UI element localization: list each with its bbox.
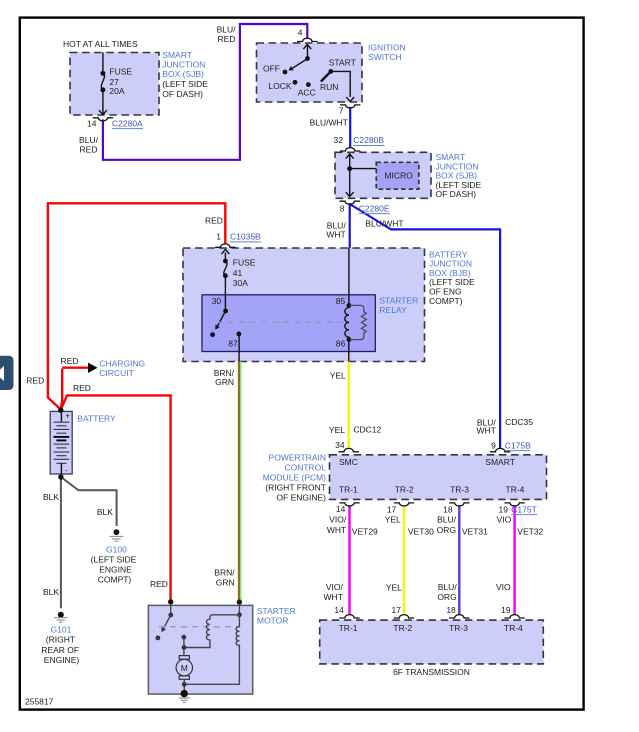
svg-text:RED: RED bbox=[80, 144, 98, 154]
svg-text:CIRCUIT: CIRCUIT bbox=[99, 368, 133, 378]
svg-text:RED: RED bbox=[218, 34, 236, 44]
svg-text:(RIGHT FRONT: (RIGHT FRONT bbox=[265, 483, 326, 493]
svg-text:COMPT): COMPT) bbox=[98, 575, 132, 585]
svg-text:CONTROL: CONTROL bbox=[284, 462, 326, 472]
svg-text:18: 18 bbox=[446, 605, 456, 615]
svg-text:MICRO: MICRO bbox=[384, 170, 413, 180]
svg-text:9: 9 bbox=[491, 441, 496, 451]
svg-text:14: 14 bbox=[334, 605, 344, 615]
svg-text:TR-1: TR-1 bbox=[339, 623, 358, 633]
svg-text:BLK: BLK bbox=[97, 507, 113, 517]
svg-text:FUSE: FUSE bbox=[233, 258, 256, 268]
svg-text:GRN: GRN bbox=[215, 377, 234, 387]
svg-text:255817: 255817 bbox=[25, 696, 54, 706]
svg-text:6F TRANSMISSION: 6F TRANSMISSION bbox=[393, 667, 470, 677]
svg-text:18: 18 bbox=[443, 504, 453, 514]
svg-text:WHT: WHT bbox=[476, 426, 495, 436]
svg-text:START: START bbox=[329, 57, 356, 67]
svg-text:M: M bbox=[181, 663, 188, 673]
svg-text:20A: 20A bbox=[109, 86, 124, 96]
svg-text:TR-4: TR-4 bbox=[504, 623, 523, 633]
svg-text:YEL: YEL bbox=[330, 371, 346, 381]
svg-text:VET29: VET29 bbox=[352, 526, 378, 536]
svg-text:BLU/WHT: BLU/WHT bbox=[365, 219, 403, 229]
svg-text:TR-2: TR-2 bbox=[395, 484, 414, 494]
svg-text:BLU/: BLU/ bbox=[217, 24, 237, 34]
svg-text:REAR OF: REAR OF bbox=[41, 645, 79, 655]
svg-text:8: 8 bbox=[340, 203, 345, 213]
svg-text:RUN: RUN bbox=[320, 82, 338, 92]
svg-text:RED: RED bbox=[150, 579, 168, 589]
svg-text:SMART: SMART bbox=[485, 457, 515, 467]
svg-text:POWERTRAIN: POWERTRAIN bbox=[269, 452, 326, 462]
svg-text:41: 41 bbox=[233, 268, 243, 278]
svg-text:RED: RED bbox=[205, 216, 223, 226]
svg-text:(LEFT SIDE: (LEFT SIDE bbox=[91, 554, 137, 564]
svg-text:G100: G100 bbox=[106, 544, 127, 554]
svg-text:CDC35: CDC35 bbox=[505, 417, 533, 427]
svg-text:VET31: VET31 bbox=[462, 526, 488, 536]
svg-text:(LEFT SIDE: (LEFT SIDE bbox=[162, 79, 208, 89]
svg-text:BOX (SJB): BOX (SJB) bbox=[162, 69, 204, 79]
svg-text:C175T: C175T bbox=[511, 504, 537, 514]
svg-text:VET30: VET30 bbox=[408, 526, 434, 536]
svg-text:SWITCH: SWITCH bbox=[368, 52, 402, 62]
svg-text:BLU/: BLU/ bbox=[437, 515, 457, 525]
svg-text:CDC12: CDC12 bbox=[353, 425, 381, 435]
svg-text:BLU/: BLU/ bbox=[438, 582, 458, 592]
svg-text:1: 1 bbox=[216, 232, 221, 242]
svg-text:RELAY: RELAY bbox=[379, 305, 407, 315]
svg-text:87: 87 bbox=[228, 338, 238, 348]
svg-text:MOTOR: MOTOR bbox=[257, 615, 288, 625]
svg-text:C2280A: C2280A bbox=[112, 118, 143, 128]
svg-text:VIO: VIO bbox=[497, 515, 512, 525]
svg-text:C175B: C175B bbox=[505, 441, 531, 451]
svg-text:C2280B: C2280B bbox=[353, 135, 384, 145]
svg-text:85: 85 bbox=[336, 296, 346, 306]
svg-text:VET32: VET32 bbox=[517, 526, 543, 536]
svg-text:ENGINE: ENGINE bbox=[99, 565, 132, 575]
svg-text:32: 32 bbox=[334, 135, 344, 145]
svg-text:YEL: YEL bbox=[329, 425, 345, 435]
svg-text:WHT: WHT bbox=[327, 525, 346, 535]
svg-text:BRN/: BRN/ bbox=[214, 567, 235, 577]
svg-text:30A: 30A bbox=[233, 278, 248, 288]
svg-text:17: 17 bbox=[392, 605, 402, 615]
svg-text:BLK: BLK bbox=[43, 492, 59, 502]
svg-text:WHT: WHT bbox=[324, 592, 343, 602]
svg-text:OF DASH): OF DASH) bbox=[162, 89, 203, 99]
svg-text:VIO: VIO bbox=[496, 582, 511, 592]
svg-text:-: - bbox=[65, 465, 68, 475]
svg-text:19: 19 bbox=[501, 605, 511, 615]
svg-text:OFF: OFF bbox=[263, 64, 280, 74]
svg-text:RED: RED bbox=[73, 383, 91, 393]
svg-text:YEL: YEL bbox=[386, 582, 402, 592]
svg-text:+: + bbox=[65, 411, 70, 421]
svg-text:86: 86 bbox=[336, 339, 346, 349]
svg-text:VIO/: VIO/ bbox=[329, 515, 347, 525]
svg-text:TR-2: TR-2 bbox=[393, 623, 412, 633]
svg-text:OF DASH): OF DASH) bbox=[436, 189, 477, 199]
svg-text:14: 14 bbox=[336, 504, 346, 514]
svg-text:SMC: SMC bbox=[339, 457, 358, 467]
svg-text:(RIGHT: (RIGHT bbox=[46, 635, 75, 645]
svg-text:BATTERY: BATTERY bbox=[77, 413, 116, 423]
svg-text:COMPT): COMPT) bbox=[429, 296, 463, 306]
svg-text:BLU/WHT: BLU/WHT bbox=[310, 118, 348, 128]
svg-text:G101: G101 bbox=[51, 624, 72, 634]
svg-text:RED: RED bbox=[61, 356, 79, 366]
svg-text:FUSE: FUSE bbox=[109, 67, 132, 77]
svg-text:YEL: YEL bbox=[385, 515, 401, 525]
svg-text:HOT AT ALL TIMES: HOT AT ALL TIMES bbox=[63, 39, 138, 49]
svg-text:34: 34 bbox=[335, 440, 345, 450]
svg-text:BLK: BLK bbox=[43, 587, 59, 597]
svg-text:TR-3: TR-3 bbox=[450, 484, 469, 494]
svg-text:ENGINE): ENGINE) bbox=[44, 655, 80, 665]
svg-text:19: 19 bbox=[499, 504, 509, 514]
svg-text:4: 4 bbox=[298, 27, 303, 37]
svg-text:OF ENGINE): OF ENGINE) bbox=[276, 492, 326, 502]
svg-text:MODULE (PCM): MODULE (PCM) bbox=[263, 473, 326, 483]
svg-text:TR-3: TR-3 bbox=[449, 623, 468, 633]
svg-text:TR-1: TR-1 bbox=[339, 484, 358, 494]
svg-text:C2280E: C2280E bbox=[359, 203, 390, 213]
svg-text:7: 7 bbox=[339, 106, 344, 116]
svg-text:WHT: WHT bbox=[326, 230, 345, 240]
svg-text:ORG: ORG bbox=[437, 525, 456, 535]
svg-text:LOCK: LOCK bbox=[268, 81, 291, 91]
svg-text:TR-4: TR-4 bbox=[506, 484, 525, 494]
svg-text:GRN: GRN bbox=[216, 578, 235, 588]
svg-text:17: 17 bbox=[387, 504, 397, 514]
svg-text:30: 30 bbox=[212, 296, 222, 306]
svg-text:ORG: ORG bbox=[437, 592, 456, 602]
svg-text:14: 14 bbox=[87, 118, 97, 128]
svg-text:ACC: ACC bbox=[298, 87, 316, 97]
svg-text:C1035B: C1035B bbox=[230, 232, 261, 242]
svg-text:RED: RED bbox=[26, 376, 44, 386]
svg-text:VIO/: VIO/ bbox=[326, 582, 344, 592]
